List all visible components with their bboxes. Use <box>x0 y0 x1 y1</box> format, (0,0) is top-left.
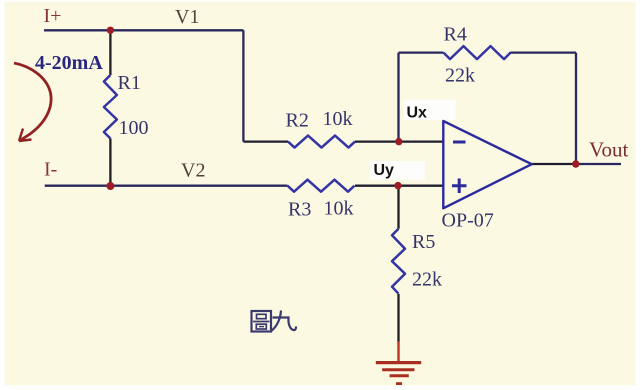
resistor R2 <box>288 136 355 148</box>
resistor R5 <box>392 229 405 294</box>
op-amp U1 OP-07 <box>443 121 531 208</box>
svg-text:V1: V1 <box>175 6 199 28</box>
node Vout junction <box>572 160 579 167</box>
wire Vout stub <box>576 163 621 165</box>
wire R5 branch bottom <box>397 294 399 342</box>
node Ux junction <box>395 138 402 145</box>
white patch behind node Uy <box>370 161 425 180</box>
wire feedback top left <box>399 51 444 53</box>
svg-text:R3: R3 <box>288 199 311 221</box>
wire R1 branch top <box>109 30 111 75</box>
svg-text:100: 100 <box>119 117 149 139</box>
junction bottom of R1 <box>106 182 114 190</box>
svg-text:V2: V2 <box>181 160 205 182</box>
wire into R2 <box>243 140 288 142</box>
node Uy junction <box>394 182 401 189</box>
resistor R4 <box>444 46 512 59</box>
ground <box>376 363 421 384</box>
junction top of R1 <box>107 27 114 34</box>
svg-text:Uy: Uy <box>374 162 395 179</box>
svg-text:I+: I+ <box>44 5 62 27</box>
svg-text:OP-07: OP-07 <box>442 210 494 232</box>
wire I- / V2 rail <box>45 185 288 187</box>
svg-text:R1: R1 <box>118 72 141 94</box>
svg-text:4-20mA: 4-20mA <box>35 52 103 74</box>
resistor R1 <box>104 75 117 139</box>
resistor R3 <box>288 180 355 192</box>
svg-text:R2: R2 <box>286 110 309 132</box>
svg-text:22k: 22k <box>412 268 442 290</box>
wire R1 branch bottom <box>109 139 111 186</box>
white patch behind node Ux <box>404 100 456 121</box>
wire feedback top right <box>511 51 576 53</box>
svg-text:22k: 22k <box>445 64 475 86</box>
wire I+ top rail <box>44 29 243 31</box>
svg-text:10k: 10k <box>323 108 353 130</box>
svg-text:I-: I- <box>44 159 57 181</box>
wire feedback left leg <box>397 53 399 142</box>
current arrow 4-20mA <box>14 63 51 141</box>
svg-text:10k: 10k <box>324 198 354 220</box>
wire V1 corner down to R2 row <box>242 30 244 141</box>
svg-text:R4: R4 <box>444 23 467 45</box>
wire R2 to op-amp inverting input <box>355 140 443 142</box>
wire feedback right leg <box>575 53 577 164</box>
wire red segment to ground <box>397 342 400 363</box>
svg-text:R5: R5 <box>412 231 435 253</box>
wire R3 to op-amp non-inverting input <box>355 185 443 187</box>
svg-text:Ux: Ux <box>407 104 428 121</box>
svg-text:Vout: Vout <box>589 137 628 161</box>
wire op-amp output <box>532 163 576 165</box>
wire R5 branch top <box>397 186 399 229</box>
caption 圖九 (Figure 9) drawn as strokes <box>252 311 297 332</box>
